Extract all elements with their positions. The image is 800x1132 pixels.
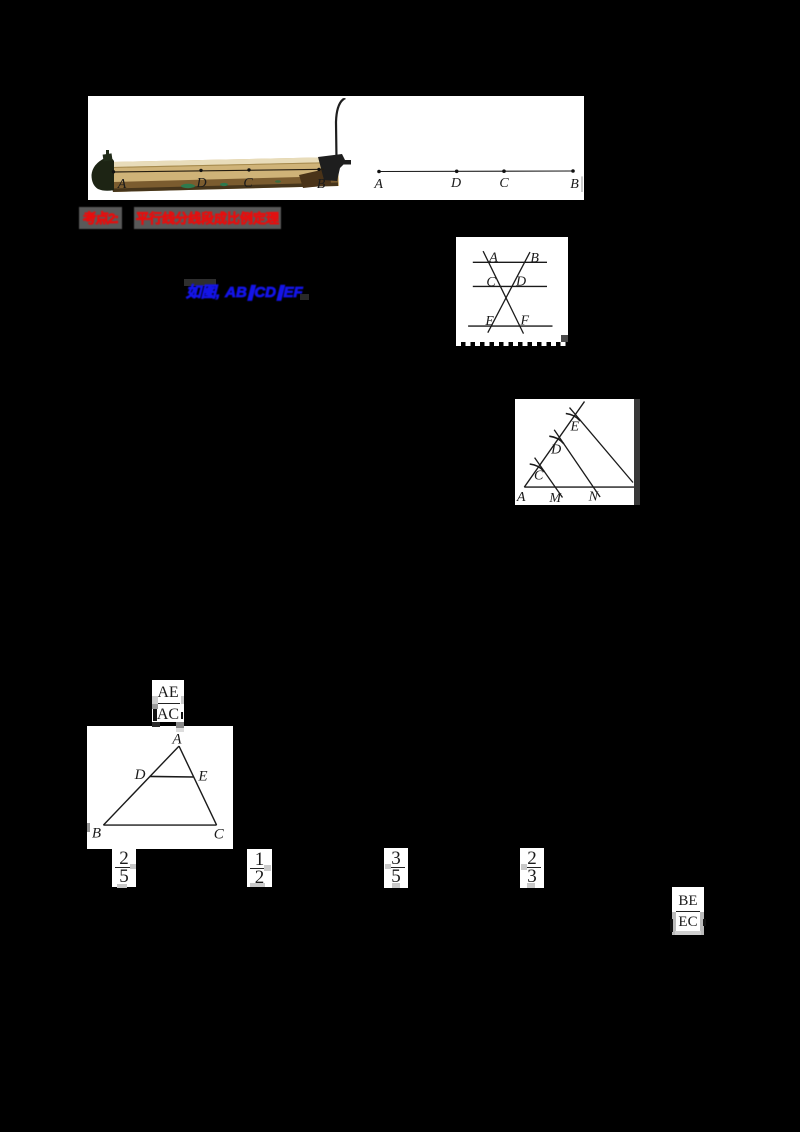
arc mark at D xyxy=(549,436,564,444)
svg-text:C: C xyxy=(214,827,225,843)
right tailpiece xyxy=(299,168,331,188)
svg-text:A: A xyxy=(516,490,526,505)
svg-text:D: D xyxy=(450,176,461,191)
gray strip left of AE/AC xyxy=(152,696,158,704)
svg-text:C: C xyxy=(486,275,496,290)
green inlay patches xyxy=(181,184,195,188)
triangle ADE/BC figure xyxy=(87,726,233,849)
fraction BE/EC xyxy=(672,887,704,935)
instrument body xyxy=(112,157,339,192)
tuning knob top-left xyxy=(103,153,113,161)
transversal BE xyxy=(488,252,530,333)
light mark bottom of 3/5 xyxy=(392,883,400,888)
light mark bottom of 2/3 xyxy=(527,883,535,888)
black tick left of BE/EC xyxy=(670,919,673,932)
body top pale strip xyxy=(112,157,338,167)
figure: three parallel lines cut by two transversals xyxy=(456,237,568,342)
curved neck rod xyxy=(336,99,345,160)
gray caret tick xyxy=(581,176,582,192)
fraction AE/AC xyxy=(152,680,184,723)
middle parallel line xyxy=(473,285,547,287)
svg-text:A: A xyxy=(117,177,127,192)
dark bar right of construction figure xyxy=(634,399,640,505)
side AC xyxy=(179,746,217,825)
transversal AF xyxy=(483,251,523,334)
dark block bottom-left of AE/AC xyxy=(152,722,160,727)
body lower dark strip xyxy=(112,176,338,190)
top parallel line xyxy=(473,261,547,263)
svg-text:B: B xyxy=(570,177,579,192)
title gray segment 2 with red text xyxy=(134,207,281,229)
diagram dot A xyxy=(377,170,381,174)
svg-text:A: A xyxy=(373,177,383,192)
light mark bottom of 2/5 xyxy=(117,884,127,888)
gray strip left lower of BE/EC xyxy=(672,912,676,935)
diagram dot B xyxy=(571,169,575,173)
svg-text:B: B xyxy=(530,251,539,266)
arc mark at E xyxy=(566,414,581,422)
black tick left below AE/AC xyxy=(153,709,157,721)
svg-text:E: E xyxy=(570,420,580,435)
svg-text:N: N xyxy=(588,490,599,505)
dot D on instrument xyxy=(199,169,202,172)
light mark left of 2/3 xyxy=(521,864,527,870)
light mark bottom of 1/2 xyxy=(250,883,265,887)
ray from A through C D E xyxy=(524,402,584,488)
dashed white fringe under figure xyxy=(456,342,566,346)
svg-text:C: C xyxy=(499,176,509,191)
gray block bottom-right of AE/AC xyxy=(176,722,184,728)
dot B on instrument xyxy=(317,168,320,171)
svg-text:D: D xyxy=(550,443,561,458)
svg-text:E: E xyxy=(484,314,494,329)
svg-text:C: C xyxy=(534,469,544,484)
segment diagram line AB xyxy=(379,170,573,173)
svg-text:E: E xyxy=(197,769,207,785)
svg-text:F: F xyxy=(520,314,530,329)
diagram dot D xyxy=(455,170,459,174)
dot A on instrument xyxy=(112,170,115,173)
gray strip right of AE/AC xyxy=(181,696,184,704)
photo/diagram white box xyxy=(88,96,584,200)
fraction 2/3 xyxy=(520,848,544,888)
gray strip bottom of BE/EC xyxy=(675,931,701,935)
svg-text:A: A xyxy=(488,251,498,266)
fraction 1/2 xyxy=(247,849,272,887)
gray dash on triangle box left edge xyxy=(87,823,90,832)
line through D to N xyxy=(554,430,600,497)
svg-text:M: M xyxy=(548,491,562,505)
side AB xyxy=(103,746,179,825)
svg-text:B: B xyxy=(317,177,326,192)
light block below-right of AE/AC xyxy=(176,728,184,732)
svg-text:C: C xyxy=(243,176,253,191)
svg-text:D: D xyxy=(515,275,526,290)
baseline A-M-N xyxy=(524,486,634,488)
line through C to M xyxy=(535,458,563,498)
light mark left of 3/5 xyxy=(385,864,391,869)
svg-text:A: A xyxy=(171,732,182,748)
body seam line xyxy=(113,163,337,168)
segment DE xyxy=(150,775,194,778)
figure: compass construction triangle xyxy=(515,399,634,505)
gray strip right lower of BE/EC xyxy=(700,912,704,935)
diagram dot C xyxy=(502,169,506,173)
left dark cap xyxy=(92,158,115,191)
blue text: 如图,AB∥CD∥EF xyxy=(184,279,216,286)
svg-text:D: D xyxy=(195,176,206,191)
gray corner mark xyxy=(561,335,568,342)
title gray segment 1 with red text xyxy=(79,207,122,229)
fraction 3/5 xyxy=(384,848,408,888)
body bottom edge xyxy=(112,183,338,193)
line through E to right corner xyxy=(570,408,634,483)
light mark right of 2/5 xyxy=(130,864,136,869)
bottom parallel line xyxy=(468,325,552,327)
fraction 2/5 xyxy=(112,848,136,887)
black tick right of BE/EC xyxy=(703,919,706,926)
black tick right below AE/AC xyxy=(181,712,184,719)
svg-text:B: B xyxy=(92,826,101,842)
arc mark at C xyxy=(530,464,545,472)
string line on instrument xyxy=(112,169,324,172)
base BC xyxy=(103,824,216,826)
svg-text:D: D xyxy=(134,767,146,783)
light mark right of 1/2 xyxy=(264,865,271,871)
dot C on instrument xyxy=(247,168,250,171)
